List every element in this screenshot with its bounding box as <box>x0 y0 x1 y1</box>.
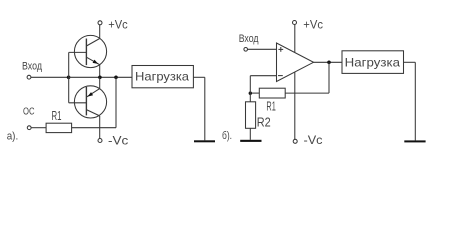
ground (R2) <box>240 140 261 142</box>
op-amp minus sign <box>278 75 283 77</box>
wire R2 to ground <box>249 128 251 140</box>
input terminal circle (circuit a) <box>27 75 31 79</box>
terminal -Vc (circuit b) <box>293 139 297 143</box>
ground (circuit a) <box>194 140 215 142</box>
wire -Vc supply (circuit b) <box>294 72 296 139</box>
wire base top <box>69 51 87 53</box>
transistor Q1 collector diagonal <box>86 39 99 47</box>
transistor Q2 base bar <box>85 87 87 115</box>
svg-text:+Vc: +Vc <box>108 17 127 31</box>
wire inverting riser <box>249 76 251 94</box>
transistor Q1 emitter arrow <box>93 60 99 64</box>
op-amp U1 triangle <box>277 43 314 82</box>
wire feedback to R1 <box>285 92 329 94</box>
transistor Q2 emitter diagonal <box>87 89 100 97</box>
svg-text:-Vc: -Vc <box>304 133 323 147</box>
wire R1 to inverting node <box>250 92 259 94</box>
transistor Q1 emitter diagonal <box>86 57 99 64</box>
wire output rail <box>69 76 132 78</box>
svg-text:+Vc: +Vc <box>303 18 323 32</box>
resistor R2 <box>246 102 256 129</box>
wire node to R2 <box>249 93 251 102</box>
svg-text:ОС: ОС <box>23 107 35 118</box>
op-amp plus sign <box>278 48 283 50</box>
junction feedback node <box>114 76 118 80</box>
wire R1 to feedback riser <box>72 127 116 129</box>
wire load to ground corner <box>193 76 204 78</box>
wire collector to -Vc <box>99 116 101 139</box>
wire base riser <box>68 52 70 102</box>
svg-text:Вход: Вход <box>22 60 42 72</box>
terminal +Vc (circuit a) <box>98 21 102 25</box>
wire op-amp output <box>314 61 343 63</box>
terminal +Vc (circuit b) <box>293 21 297 25</box>
load box Нагрузка (circuit a) <box>132 66 193 88</box>
wire base bottom <box>69 102 87 104</box>
junction emitter node <box>98 76 102 80</box>
wire load to ground corner (circuit b) <box>404 61 416 63</box>
wire OC to R1 <box>31 127 46 129</box>
junction output node <box>327 61 331 65</box>
junction inverting node <box>249 92 252 95</box>
wire collector to +Vc <box>99 25 101 39</box>
svg-text:R2: R2 <box>257 115 271 129</box>
wire +Vc supply (circuit b) <box>294 25 296 53</box>
svg-text:R1: R1 <box>266 100 275 114</box>
wire rail to Q2 emitter <box>99 77 101 88</box>
svg-text:Нагрузка: Нагрузка <box>345 55 401 69</box>
terminal OC <box>27 126 31 130</box>
transistor Q1 base bar <box>85 39 87 66</box>
svg-text:а).: а). <box>7 131 19 143</box>
wire emitter to output rail <box>99 65 101 78</box>
svg-text:Нагрузка: Нагрузка <box>135 69 189 83</box>
junction input node <box>67 76 71 80</box>
wire feedback drop <box>328 62 330 93</box>
ground (circuit b) <box>404 140 425 142</box>
input terminal circle (circuit b) <box>244 48 248 52</box>
svg-text:Вход: Вход <box>239 33 259 45</box>
resistor R1 (circuit a) <box>46 123 72 132</box>
transistor Q2 collector diagonal <box>86 110 99 116</box>
transistor Q2 circle (PNP bottom) <box>74 86 106 118</box>
load box Нагрузка (circuit b) <box>342 51 404 74</box>
terminal -Vc (circuit a) <box>98 139 102 143</box>
wire feedback riser <box>115 77 117 127</box>
wire ground drop (circuit a) <box>204 77 206 140</box>
wire ground drop (circuit b) <box>414 62 416 140</box>
svg-text:R1: R1 <box>52 109 62 123</box>
svg-text:-Vc: -Vc <box>108 134 128 148</box>
wire to inverting input <box>250 75 276 77</box>
resistor R1 (circuit b) <box>259 88 285 98</box>
svg-text:б).: б). <box>222 130 232 142</box>
transistor Q2 emitter arrow <box>88 92 94 97</box>
wire input to node <box>31 76 69 78</box>
wire input to op-amp <box>248 48 277 50</box>
transistor Q1 circle (NPN top) <box>74 35 106 67</box>
